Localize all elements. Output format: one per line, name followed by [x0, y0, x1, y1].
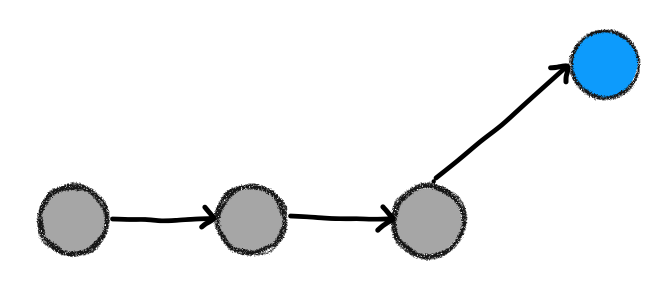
circle node3 (gray)	[392, 184, 466, 259]
circle node2 (gray)	[215, 185, 286, 255]
circle node4 (blue)	[570, 30, 640, 99]
arrow from node3 to node4	[436, 66, 568, 178]
dot at start of arrow from node3	[432, 179, 436, 183]
circle node1 (gray)	[38, 184, 109, 256]
arrow from node1 to node2	[113, 207, 214, 227]
arrow from node2 to node3	[291, 207, 393, 230]
